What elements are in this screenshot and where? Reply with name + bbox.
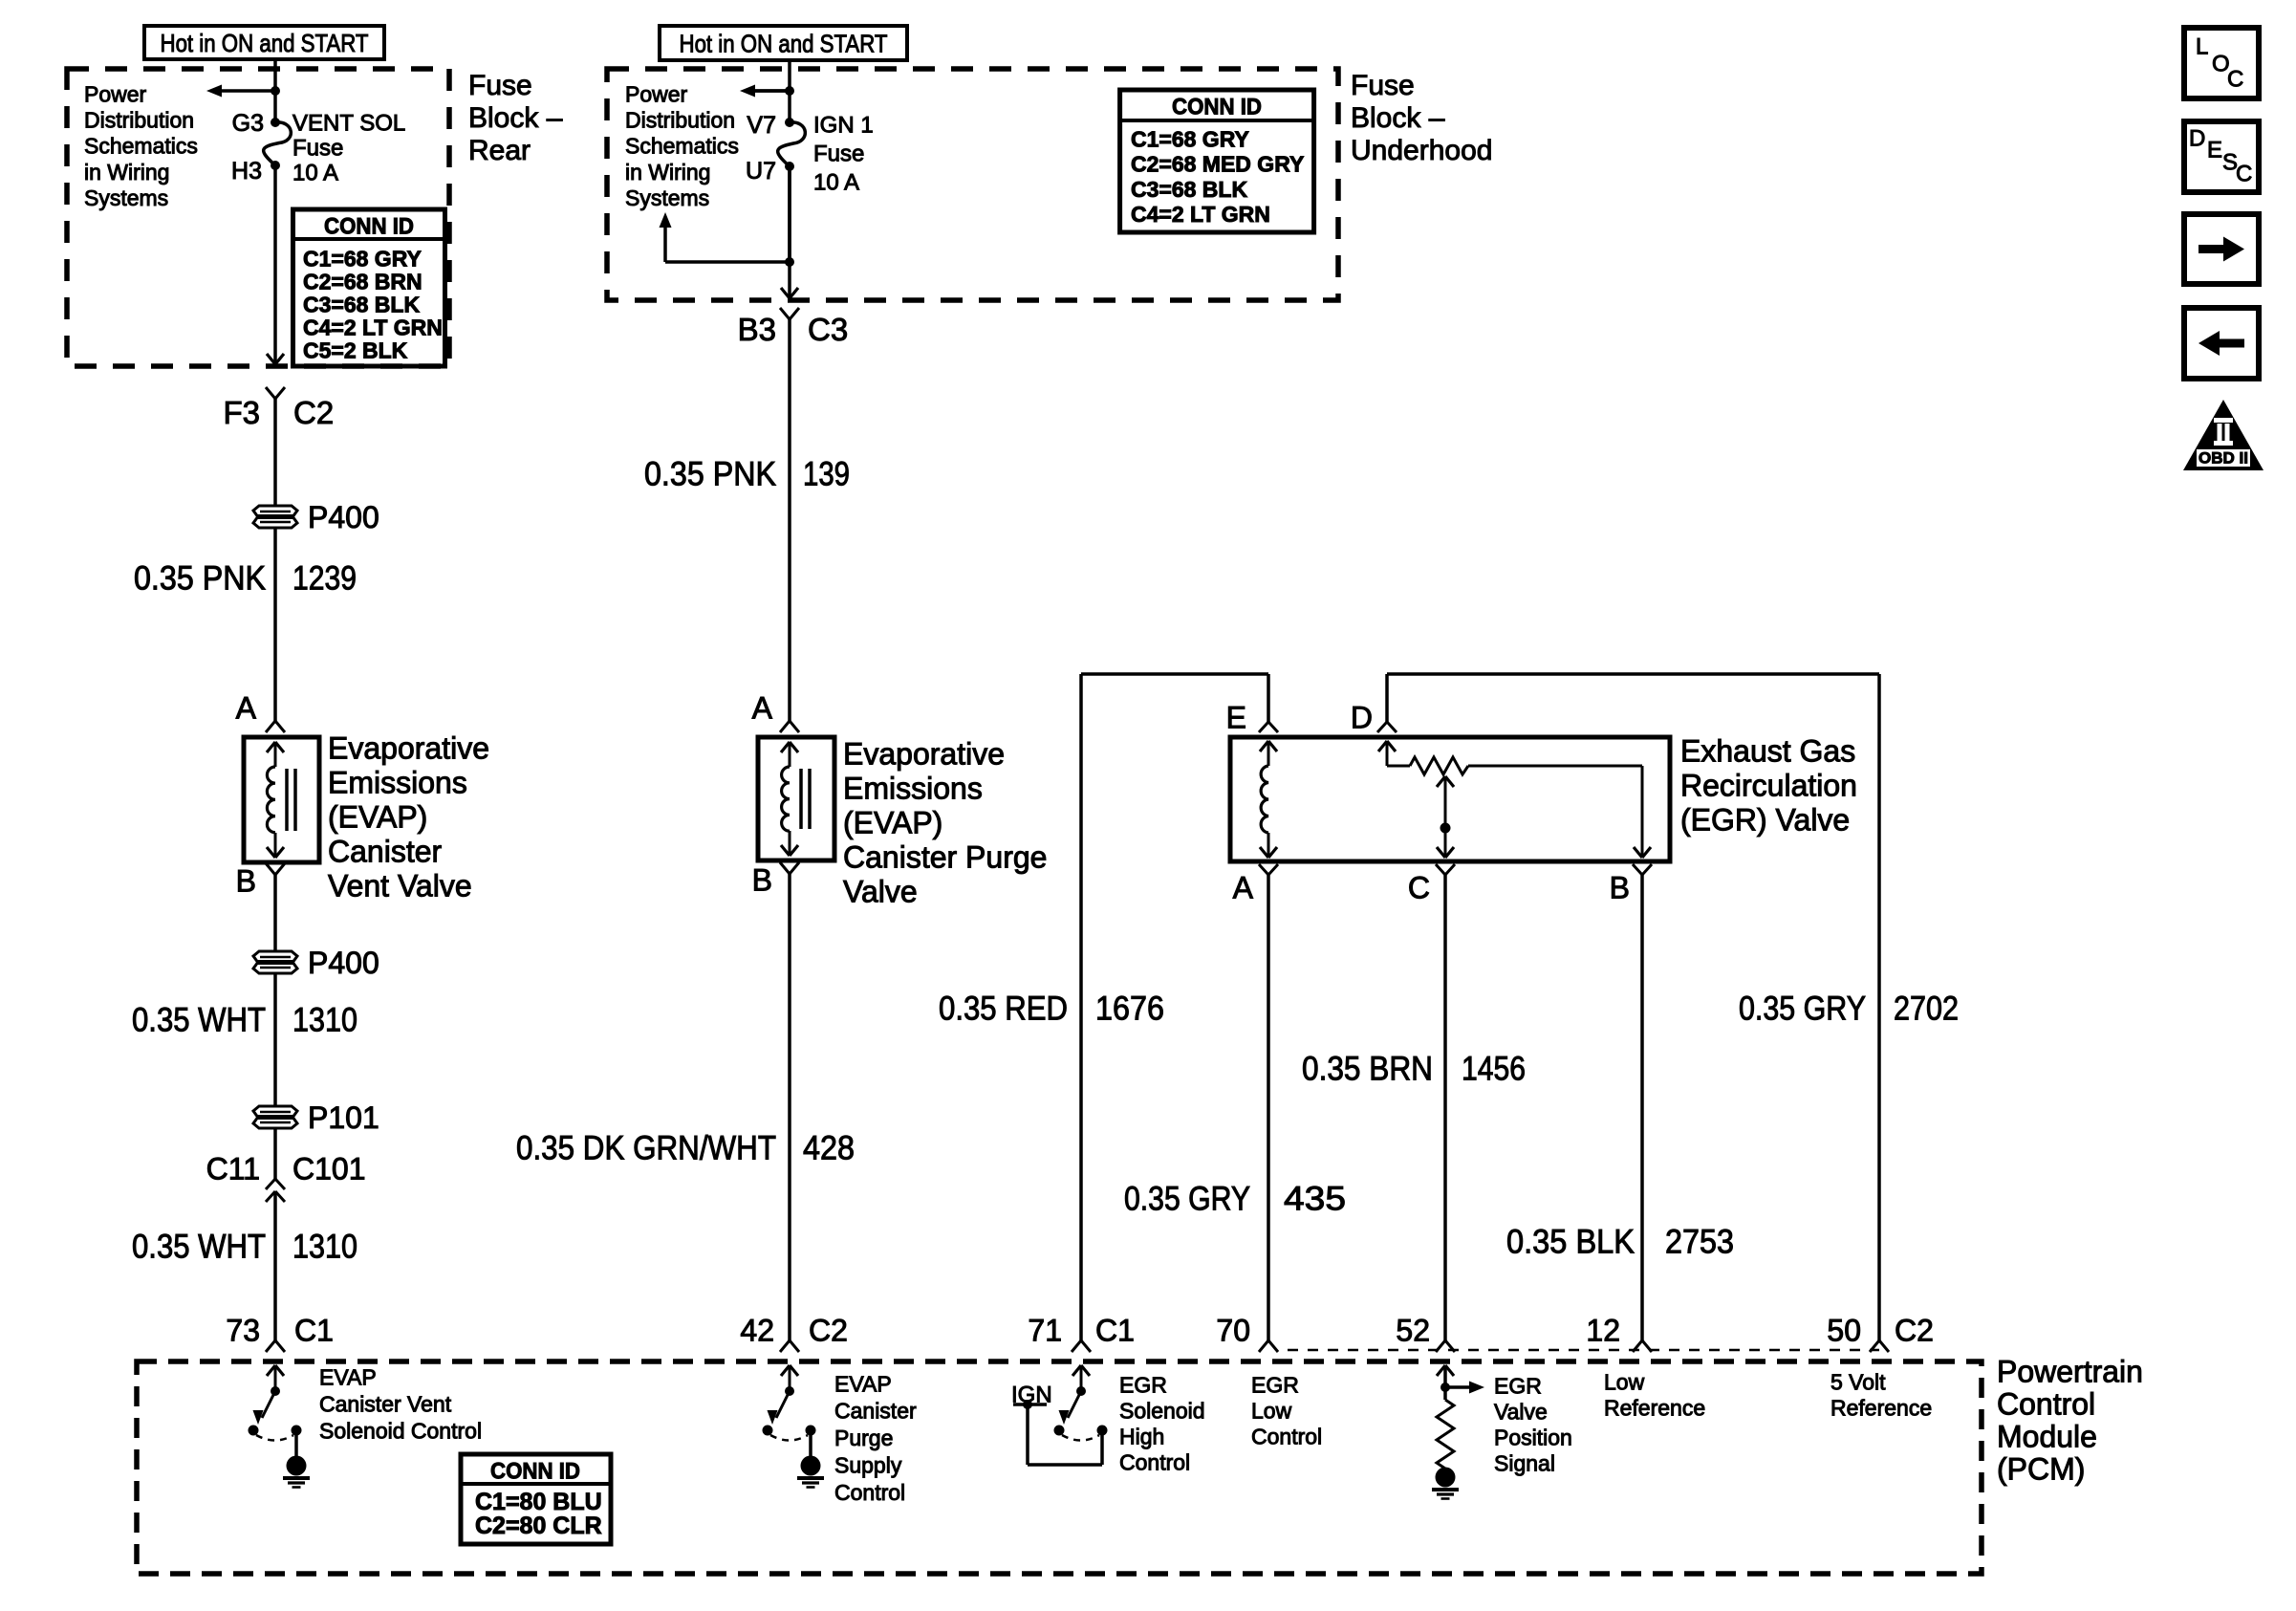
- svg-text:Underhood: Underhood: [1351, 135, 1492, 166]
- svg-text:C11: C11: [206, 1152, 260, 1186]
- svg-text:Systems: Systems: [84, 185, 168, 210]
- svg-text:0.35 PNK: 0.35 PNK: [134, 560, 266, 598]
- wire EGR solenoid high control (to pin 71): [1079, 674, 1083, 1340]
- svg-text:Signal: Signal: [1494, 1450, 1555, 1475]
- svg-text:Powertrain: Powertrain: [1997, 1355, 2143, 1389]
- svg-text:139: 139: [803, 456, 850, 493]
- svg-text:EGR: EGR: [1251, 1372, 1299, 1397]
- wire from hot box into fuse block: [273, 58, 277, 121]
- inline connector P400 (bottom): [253, 951, 297, 962]
- svg-text:(EVAP): (EVAP): [843, 806, 942, 840]
- wire H3 to fuse block exit: [273, 165, 277, 364]
- svg-text:Power: Power: [625, 81, 688, 106]
- svg-text:Canister: Canister: [834, 1399, 917, 1424]
- connector B3 C3: [780, 308, 790, 319]
- svg-text:Control: Control: [1119, 1449, 1190, 1474]
- svg-text:Valve: Valve: [1494, 1399, 1548, 1424]
- svg-text:A: A: [236, 691, 257, 726]
- connector dashed line pins 70-50: [1288, 1349, 1879, 1352]
- EVAP canister purge valve box: [758, 737, 834, 860]
- svg-text:C2: C2: [293, 395, 334, 430]
- EGR valve box: [1230, 737, 1670, 861]
- svg-text:C: C: [2227, 67, 2243, 93]
- svg-text:Hot in ON and START: Hot in ON and START: [680, 29, 888, 57]
- svg-text:52: 52: [1396, 1314, 1430, 1348]
- svg-text:EGR: EGR: [1494, 1373, 1542, 1398]
- wire to fuse block exit: [788, 262, 791, 298]
- svg-text:2753: 2753: [1665, 1224, 1734, 1261]
- top rail from EGR pin D to 5V ref: [1385, 674, 1389, 722]
- Hot in ON and START label box (rear): [144, 26, 384, 59]
- svg-text:C4=2 LT GRN: C4=2 LT GRN: [303, 315, 443, 339]
- svg-text:C3: C3: [808, 312, 848, 347]
- EVAP canister purge supply control driver: [781, 1365, 790, 1376]
- svg-text:A: A: [752, 691, 773, 726]
- svg-text:1310: 1310: [292, 1002, 357, 1039]
- DESC icon: [2184, 121, 2259, 192]
- svg-text:Vent Valve: Vent Valve: [328, 869, 472, 903]
- EVAP canister vent solenoid control driver: [267, 1365, 275, 1376]
- svg-text:0.35 DK GRN/WHT: 0.35 DK GRN/WHT: [516, 1130, 776, 1167]
- CONN ID table (fuse block rear): [293, 209, 445, 366]
- svg-text:Fuse: Fuse: [468, 70, 532, 101]
- fuse block rear dashed box: [67, 69, 449, 366]
- svg-text:Control: Control: [834, 1480, 905, 1505]
- svg-text:Recirculation: Recirculation: [1680, 769, 1857, 803]
- svg-text:E: E: [1226, 701, 1246, 735]
- svg-text:Emissions: Emissions: [843, 772, 983, 806]
- svg-text:Fuse: Fuse: [1351, 70, 1415, 101]
- svg-text:Low: Low: [1604, 1369, 1645, 1394]
- svg-text:5 Volt: 5 Volt: [1830, 1369, 1886, 1394]
- EGR pot: D feed resistor: [1378, 741, 1387, 751]
- svg-text:C2=80 CLR: C2=80 CLR: [475, 1513, 602, 1539]
- svg-text:2702: 2702: [1894, 991, 1959, 1028]
- svg-text:(EVAP): (EVAP): [328, 800, 427, 835]
- svg-text:Reference: Reference: [1604, 1395, 1705, 1420]
- svg-text:Schematics: Schematics: [625, 134, 739, 159]
- PCM dashed box: [137, 1361, 1982, 1574]
- svg-text:P400: P400: [308, 500, 379, 534]
- svg-text:C5=2 BLK: C5=2 BLK: [303, 337, 408, 362]
- svg-text:EVAP: EVAP: [834, 1371, 892, 1396]
- svg-text:C: C: [1408, 871, 1430, 905]
- svg-text:0.35 BLK: 0.35 BLK: [1506, 1224, 1635, 1261]
- svg-text:71: 71: [1028, 1314, 1062, 1348]
- svg-text:Position: Position: [1494, 1425, 1572, 1449]
- back arrow icon: [2184, 308, 2259, 379]
- svg-text:EGR: EGR: [1119, 1372, 1167, 1397]
- svg-text:10 A: 10 A: [292, 161, 338, 186]
- svg-text:C2: C2: [1895, 1314, 1934, 1348]
- svg-text:Module: Module: [1997, 1420, 2097, 1454]
- svg-text:C: C: [2236, 162, 2252, 187]
- OBD II icon: [2183, 400, 2264, 470]
- svg-text:Canister: Canister: [328, 835, 443, 869]
- svg-text:P101: P101: [308, 1100, 379, 1135]
- svg-text:73: 73: [226, 1314, 260, 1348]
- svg-text:Power: Power: [84, 81, 147, 106]
- svg-text:0.35 GRY: 0.35 GRY: [1124, 1181, 1250, 1218]
- svg-text:Purge: Purge: [834, 1426, 893, 1450]
- inline connector P400 (top): [253, 506, 297, 516]
- svg-text:1310: 1310: [292, 1229, 357, 1266]
- EGR solenoid coil (E-A): [1260, 741, 1268, 751]
- purge valve solenoid coil: [781, 742, 790, 752]
- svg-text:B: B: [1610, 871, 1630, 905]
- svg-text:0.35 WHT: 0.35 WHT: [132, 1002, 266, 1039]
- svg-text:1676: 1676: [1095, 991, 1164, 1028]
- connector C11 / C101: [273, 1128, 277, 1179]
- svg-text:U7: U7: [746, 158, 776, 185]
- svg-text:1456: 1456: [1462, 1051, 1526, 1088]
- svg-text:B: B: [236, 864, 256, 899]
- svg-text:Hot in ON and START: Hot in ON and START: [161, 29, 369, 57]
- CONN ID table (fuse block underhood): [1120, 90, 1314, 232]
- svg-text:Evaporative: Evaporative: [843, 737, 1005, 772]
- svg-text:B3: B3: [738, 312, 776, 347]
- svg-text:High: High: [1119, 1424, 1164, 1448]
- svg-text:EVAP: EVAP: [319, 1364, 377, 1389]
- svg-text:CONN ID: CONN ID: [490, 1459, 580, 1485]
- svg-text:Solenoid Control: Solenoid Control: [319, 1418, 482, 1443]
- svg-text:in Wiring: in Wiring: [625, 160, 710, 185]
- svg-text:70: 70: [1216, 1314, 1250, 1348]
- svg-text:L: L: [2196, 34, 2208, 60]
- svg-text:D: D: [2189, 126, 2205, 152]
- svg-text:428: 428: [803, 1130, 855, 1167]
- svg-text:Evaporative: Evaporative: [328, 731, 489, 766]
- svg-text:D: D: [1351, 701, 1373, 735]
- svg-text:Distribution: Distribution: [625, 108, 735, 133]
- svg-text:F3: F3: [223, 395, 260, 430]
- svg-text:B: B: [752, 863, 772, 898]
- svg-text:Fuse: Fuse: [292, 136, 343, 162]
- wire label 0.35 PNK 1239: [273, 528, 277, 721]
- svg-text:C2=68 BRN: C2=68 BRN: [303, 269, 422, 294]
- svg-text:42: 42: [740, 1314, 774, 1348]
- svg-text:C1=68 GRY: C1=68 GRY: [1131, 126, 1249, 151]
- svg-text:(PCM): (PCM): [1997, 1452, 2085, 1487]
- svg-text:H3: H3: [231, 158, 262, 185]
- svg-text:C101: C101: [292, 1152, 366, 1186]
- svg-text:C3=68 BLK: C3=68 BLK: [303, 292, 420, 316]
- svg-text:0.35 BRN: 0.35 BRN: [1302, 1051, 1433, 1088]
- svg-text:Fuse: Fuse: [813, 142, 864, 167]
- svg-text:C1=80 BLU: C1=80 BLU: [475, 1489, 602, 1515]
- svg-text:CONN ID: CONN ID: [324, 214, 414, 240]
- svg-text:VENT SOL: VENT SOL: [292, 111, 405, 137]
- svg-text:C2=68 MED GRY: C2=68 MED GRY: [1131, 152, 1304, 177]
- svg-text:Block –: Block –: [468, 102, 563, 134]
- svg-text:C4=2 LT GRN: C4=2 LT GRN: [1131, 202, 1270, 227]
- svg-text:0.35 GRY: 0.35 GRY: [1739, 991, 1866, 1028]
- svg-text:P400: P400: [308, 946, 379, 980]
- svg-text:0.35 RED: 0.35 RED: [939, 991, 1068, 1028]
- svg-text:Control: Control: [1997, 1387, 2095, 1422]
- svg-text:Rear: Rear: [468, 135, 531, 166]
- svg-text:CONN ID: CONN ID: [1172, 95, 1262, 120]
- top rail to EGR pin E: [1081, 672, 1268, 676]
- svg-text:Low: Low: [1251, 1398, 1292, 1423]
- svg-text:(EGR) Valve: (EGR) Valve: [1680, 803, 1850, 838]
- power distribution feed arrow (underhood): [755, 89, 790, 93]
- svg-text:Canister Vent: Canister Vent: [319, 1391, 452, 1416]
- LOC icon: [2184, 28, 2259, 98]
- svg-text:C2: C2: [809, 1314, 848, 1348]
- svg-text:C1=68 GRY: C1=68 GRY: [303, 246, 422, 271]
- inline connector P101: [253, 1106, 297, 1117]
- svg-text:0.35 WHT: 0.35 WHT: [132, 1229, 266, 1266]
- svg-text:1239: 1239: [292, 560, 357, 598]
- svg-text:C1: C1: [1095, 1314, 1135, 1348]
- vent valve solenoid coil: [267, 742, 275, 752]
- svg-text:0.35 PNK: 0.35 PNK: [644, 456, 776, 493]
- svg-text:12: 12: [1586, 1314, 1620, 1348]
- svg-text:Canister Purge: Canister Purge: [843, 840, 1047, 875]
- connector F3 C2: [266, 387, 275, 399]
- svg-text:Exhaust Gas: Exhaust Gas: [1680, 734, 1855, 769]
- fuse block underhood dashed box: [607, 69, 1338, 300]
- svg-text:IGN 1: IGN 1: [813, 113, 874, 139]
- EVAP canister vent valve box: [244, 737, 319, 862]
- svg-text:Solenoid: Solenoid: [1119, 1398, 1205, 1423]
- svg-text:in Wiring: in Wiring: [84, 160, 169, 185]
- svg-text:Control: Control: [1251, 1424, 1322, 1448]
- svg-text:C3=68 BLK: C3=68 BLK: [1131, 177, 1247, 202]
- EGR pot wiper to pin C: [1437, 776, 1445, 787]
- svg-text:Systems: Systems: [625, 185, 709, 210]
- svg-text:E: E: [2207, 138, 2222, 163]
- svg-text:50: 50: [1827, 1314, 1861, 1348]
- svg-text:Supply: Supply: [834, 1453, 902, 1478]
- svg-text:OBD II: OBD II: [2199, 449, 2248, 468]
- svg-text:Distribution: Distribution: [84, 108, 194, 133]
- EGR solenoid high control switch: [1072, 1365, 1081, 1376]
- wire label 0.35 WHT 1310 (upper): [273, 973, 277, 1106]
- wire from hot box into fuse block: [788, 59, 791, 124]
- svg-text:C1: C1: [294, 1314, 334, 1348]
- svg-text:Emissions: Emissions: [328, 766, 467, 800]
- EGR valve position signal input: [1437, 1365, 1445, 1376]
- power distribution feed arrow (rear): [220, 89, 275, 93]
- svg-text:10 A: 10 A: [813, 170, 859, 196]
- svg-text:435: 435: [1284, 1181, 1346, 1218]
- power distribution up arrow branch: [788, 166, 791, 262]
- svg-text:G3: G3: [232, 110, 264, 137]
- svg-text:Valve: Valve: [843, 875, 918, 909]
- svg-text:A: A: [1233, 871, 1254, 905]
- svg-text:Block –: Block –: [1351, 102, 1445, 134]
- CONN ID table (PCM): [461, 1454, 611, 1544]
- svg-text:Reference: Reference: [1830, 1395, 1932, 1420]
- svg-text:V7: V7: [747, 112, 776, 139]
- forward arrow icon: [2184, 214, 2259, 284]
- svg-text:Schematics: Schematics: [84, 134, 198, 159]
- Hot in ON and START label box (underhood): [660, 26, 907, 60]
